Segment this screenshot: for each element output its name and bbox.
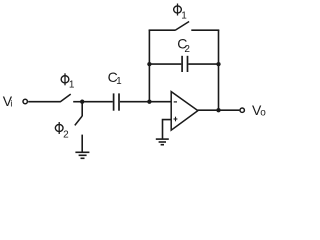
switch S2 top lead (node A down) xyxy=(81,102,83,116)
capacitor C2 plates xyxy=(182,56,187,72)
node A junction dot xyxy=(80,100,84,104)
svg-text:2: 2 xyxy=(63,129,69,140)
switch S2 bottom lead to ground xyxy=(81,135,83,152)
op-amp non-inverting pin mark xyxy=(174,117,178,122)
svg-text:1: 1 xyxy=(69,80,75,91)
switch S2 arm (phi2) xyxy=(75,116,83,126)
terminal Vo xyxy=(240,108,244,112)
label phi2 xyxy=(55,122,63,134)
node E junction dot (C2 right) xyxy=(216,62,220,66)
node D junction dot (C2 left) xyxy=(147,62,151,66)
node B junction dot (inverting input) xyxy=(147,100,151,104)
svg-text:1: 1 xyxy=(116,76,122,87)
wire Vi to switch S1 xyxy=(28,101,60,103)
wire non-inverting input xyxy=(163,120,172,139)
feedback left vertical wire xyxy=(148,30,150,102)
ground G1 xyxy=(75,152,89,158)
wire node A to capacitor C1 xyxy=(82,101,113,103)
switch S1 arm (phi1) xyxy=(60,94,71,102)
wire C1 to node B xyxy=(120,101,149,103)
wire node B to op-amp xyxy=(149,101,171,103)
label phi1 (input switch) xyxy=(61,73,69,85)
wire node C to terminal Vo xyxy=(219,109,240,111)
wire C2 left segment xyxy=(149,63,181,65)
label C2 xyxy=(177,36,190,55)
svg-text:1: 1 xyxy=(181,10,187,21)
terminal Vi xyxy=(23,99,27,103)
op-amp inverting pin mark xyxy=(174,101,177,103)
svg-text:2: 2 xyxy=(184,44,190,55)
svg-text:i: i xyxy=(10,98,12,108)
feedback right vertical wire xyxy=(218,30,220,110)
ground G2 xyxy=(156,139,169,145)
op-amp U1 triangle xyxy=(171,92,198,131)
node C junction dot (output) xyxy=(216,108,220,112)
label phi1 (feedback switch) xyxy=(174,4,182,16)
label Vo xyxy=(252,102,266,119)
feedback top wire right contact xyxy=(191,29,219,31)
wire op-amp output to node C xyxy=(198,109,219,111)
label Vi xyxy=(3,93,13,109)
label C1 xyxy=(108,69,123,87)
svg-text:o: o xyxy=(260,108,266,119)
capacitor C1 plates xyxy=(114,93,119,110)
switch S3 arm (phi1 feedback) xyxy=(175,22,189,31)
wire S1 right contact to node A xyxy=(73,101,82,103)
feedback top wire left contact xyxy=(149,29,176,31)
wire C2 right segment xyxy=(188,63,218,65)
